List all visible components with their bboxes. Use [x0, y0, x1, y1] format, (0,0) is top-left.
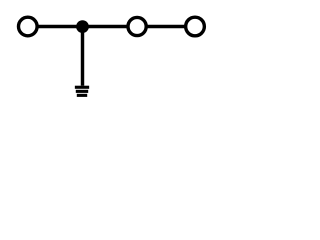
wire (horizontal net, left terminal to middle terminal) — [28, 25, 137, 28]
terminal circle middle — [128, 17, 146, 35]
terminal circle left — [19, 17, 38, 36]
ground — [75, 86, 89, 97]
wire (vertical drop to ground) — [81, 27, 84, 86]
wire (horizontal net, middle terminal to right terminal) — [137, 25, 195, 28]
terminal circle right — [186, 17, 205, 36]
node junction dot — [76, 20, 89, 33]
